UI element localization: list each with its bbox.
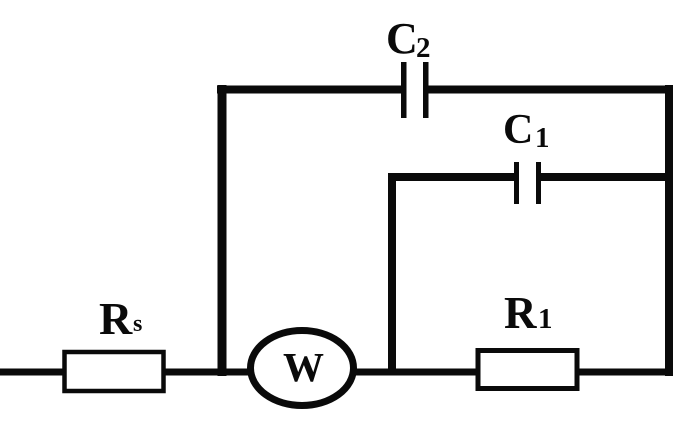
resistor R1: [478, 351, 577, 389]
wire: top rail right segment from C2 to right vertical: [429, 86, 674, 94]
wire: C1 branch horizontal left segment: [388, 173, 514, 181]
wire: bottom rail from R1 to right vertical: [577, 369, 673, 376]
wire: right vertical branch: [665, 85, 673, 376]
wire: bottom rail from Rs to Warburg W: [164, 369, 252, 376]
capacitor C2 right plate: [423, 62, 429, 118]
wire: top rail left segment to C2: [217, 86, 402, 94]
wire: bottom rail left segment to Rs: [0, 369, 66, 376]
svg-text:C: C: [386, 14, 418, 63]
wire: left vertical branch: [218, 85, 227, 376]
resistor Rs: [65, 352, 164, 391]
capacitor C1 right plate: [536, 162, 541, 204]
svg-text:1: 1: [538, 303, 553, 335]
wire: bottom rail from W to R1: [352, 369, 478, 376]
svg-text:C: C: [503, 107, 533, 153]
capacitor C2 left plate: [401, 62, 407, 118]
svg-text:s: s: [133, 311, 142, 337]
svg-text:2: 2: [416, 32, 431, 64]
svg-text:R: R: [99, 293, 133, 344]
svg-text:1: 1: [535, 122, 550, 154]
wire: inner vertical branch to C1: [388, 173, 396, 374]
svg-text:R: R: [504, 288, 537, 338]
Warburg element W: [251, 331, 354, 406]
capacitor C1 left plate: [514, 162, 519, 204]
wire: C1 branch horizontal right segment: [541, 173, 673, 181]
svg-text:W: W: [283, 344, 324, 390]
